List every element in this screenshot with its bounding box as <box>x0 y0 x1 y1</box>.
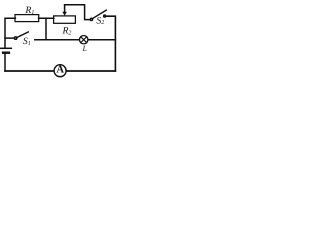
wire R1 right to R2 left <box>39 17 54 19</box>
wire junction node down to middle row <box>45 18 47 40</box>
rheostat wiper arrow stem <box>64 5 66 12</box>
wire S2 to right edge <box>106 16 115 71</box>
switch S2 right contact <box>104 15 106 17</box>
switch S1 stub from left wire <box>5 37 14 39</box>
svg-text:A: A <box>56 64 64 75</box>
rheostat wiper arrowhead <box>62 12 67 16</box>
wire wiper top to corner and down to S2 <box>65 5 90 20</box>
svg-text:L: L <box>82 44 88 53</box>
wire left edge below battery <box>4 53 6 71</box>
bottom wire <box>5 70 115 72</box>
wire middle row left (S1 to lamp) <box>35 39 79 41</box>
switch S1 pivot contact <box>14 37 16 39</box>
resistor R1 <box>15 15 39 22</box>
battery long plate <box>1 47 12 49</box>
switch S2 arm <box>93 10 106 18</box>
wire middle row right (lamp to right edge) <box>88 39 115 41</box>
switch S2 left contact <box>90 18 92 20</box>
lamp L circle <box>80 36 88 44</box>
switch S1 arm <box>17 32 28 38</box>
rheostat R2 body <box>54 16 76 23</box>
battery short plate <box>3 52 9 54</box>
ammeter A circle <box>54 65 66 77</box>
lamp L cross <box>81 37 87 43</box>
wire top-left from battery corner to R1 <box>5 18 15 48</box>
